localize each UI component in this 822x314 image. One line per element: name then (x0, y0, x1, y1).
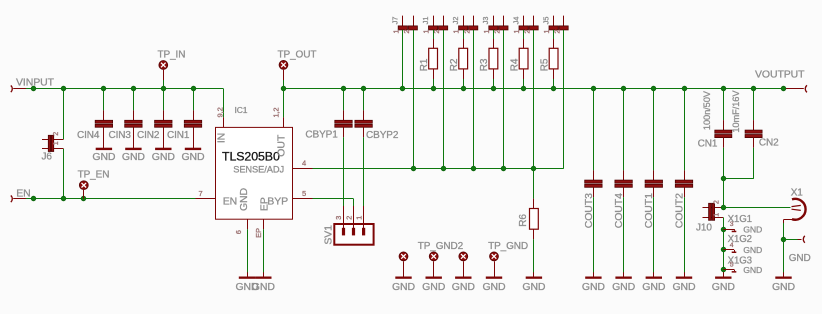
resistor R5 (539, 30, 558, 89)
junction R1 (431, 86, 436, 91)
svg-text:TP_GND: TP_GND (488, 241, 528, 252)
svg-text:GND: GND (482, 281, 506, 293)
svg-text:COUT2: COUT2 (673, 193, 685, 228)
jumper J1 (421, 16, 448, 34)
junction CIN4 (101, 86, 106, 91)
resistor R4 (509, 30, 528, 89)
capacitor CN1 100n/50V (698, 89, 732, 179)
junction CBYP1 (341, 86, 346, 91)
ground under R6 (522, 272, 546, 293)
pin EP bottom (254, 219, 264, 238)
svg-text:1: 1 (422, 30, 431, 34)
junction J6 column (61, 86, 66, 91)
ground under testpoint 1 (392, 272, 416, 293)
wire J3 pin2 to SENSE (503, 30, 505, 169)
testpoint TP ground 4 (490, 252, 499, 273)
junction R5 (551, 86, 556, 91)
ground under COUT4 (612, 272, 636, 293)
wire J4 pin2 to SENSE (533, 30, 535, 169)
svg-text:COUT3: COUT3 (583, 193, 595, 228)
svg-text:R3: R3 (479, 58, 490, 71)
svg-text:X1: X1 (791, 187, 804, 198)
junction CN1 bottom (721, 176, 726, 181)
wire CN bottom loop (723, 178, 753, 180)
junction CIN3 (131, 86, 136, 91)
svg-text:1: 1 (355, 216, 364, 220)
resistor R6 (518, 169, 538, 273)
svg-text:CIN1: CIN1 (167, 130, 190, 141)
pin 5 BYP (293, 189, 313, 199)
wire X1G ground column (723, 218, 725, 273)
svg-text:R5: R5 (539, 58, 550, 71)
svg-text:COUT1: COUT1 (643, 193, 655, 228)
svg-text:6: 6 (234, 230, 243, 234)
testpoint TP_OUT (278, 49, 317, 88)
svg-text:J4: J4 (511, 17, 520, 25)
svg-text:100n/50V: 100n/50V (702, 90, 712, 130)
svg-text:10mF/16V: 10mF/16V (731, 90, 741, 133)
wire J2 pin2 to SENSE (473, 30, 475, 169)
port VINPUT (11, 77, 55, 93)
testpoint TP ground 1 (399, 252, 408, 273)
svg-text:GND: GND (789, 253, 811, 264)
svg-text:EP: EP (254, 228, 263, 238)
jumper J10 (696, 200, 723, 233)
net BYP wire (313, 199, 354, 207)
ground under CIN1 (181, 148, 205, 163)
pin X1G2 (721, 234, 762, 255)
svg-text:J10: J10 (696, 222, 712, 233)
svg-text:2: 2 (553, 30, 562, 34)
svg-text:J7: J7 (391, 17, 400, 25)
net SENSE wire (313, 30, 564, 169)
svg-text:GND: GND (452, 281, 476, 293)
ground under X1 shield (772, 272, 796, 293)
junction CIN1 (191, 86, 196, 91)
svg-text:CBYP1: CBYP1 (305, 130, 338, 141)
jumper J2 (451, 16, 478, 34)
junction COUT2 (682, 86, 687, 91)
svg-text:EN: EN (223, 195, 237, 207)
svg-text:GND: GND (743, 245, 762, 255)
junction CBYP2 (361, 86, 366, 91)
pin X1G3 (721, 256, 762, 275)
ground under CIN3 (122, 148, 146, 163)
svg-text:GND: GND (743, 265, 762, 275)
pin X1G1 (721, 214, 762, 234)
svg-text:J6: J6 (42, 152, 53, 163)
capacitor CIN2 (137, 89, 172, 148)
svg-text:J3: J3 (481, 17, 490, 25)
ground under COUT2 (672, 272, 696, 293)
wire CN junction down (723, 179, 725, 208)
svg-text:OUT: OUT (276, 134, 288, 157)
svg-text:TLS205B0: TLS205B0 (222, 149, 280, 163)
net EN wire (26, 198, 196, 200)
junction CN2 (751, 86, 756, 91)
junction J3 pin2 (501, 166, 506, 171)
svg-text:GND: GND (522, 281, 546, 293)
ground under X1G column (712, 272, 736, 293)
wire J7 pin2 to SENSE (413, 30, 415, 169)
svg-text:TP_GND2: TP_GND2 (418, 241, 464, 252)
svg-text:1: 1 (542, 30, 551, 34)
port VOUTPUT (755, 68, 807, 92)
svg-text:GND: GND (712, 281, 736, 293)
svg-text:TP_OUT: TP_OUT (278, 49, 317, 60)
svg-text:1: 1 (53, 141, 60, 145)
wire J5 pin2 to SENSE (563, 30, 565, 169)
junction J7 (400, 86, 405, 91)
svg-text:R1: R1 (419, 58, 430, 71)
pin 7 EN (196, 189, 216, 198)
testpoint TP_IN (158, 49, 186, 88)
net X1 signal wire (723, 207, 790, 209)
ground under testpoint 3 (452, 272, 476, 293)
svg-text:GND: GND (422, 281, 446, 293)
svg-text:R2: R2 (449, 58, 460, 71)
junction VINPUT port (31, 86, 36, 91)
ground under testpoint 2 (422, 272, 446, 293)
svg-text:CIN4: CIN4 (77, 130, 100, 141)
capacitor CBYP2 (355, 89, 399, 206)
capacitor COUT1 (643, 89, 662, 273)
svg-text:BYP: BYP (267, 195, 288, 207)
capacitor COUT3 (583, 89, 602, 273)
op-amp U1 regulator IC1 TLS205B0 body (216, 105, 293, 219)
junction CIN2 (161, 86, 166, 91)
capacitor CBYP1 (305, 89, 352, 206)
junction R3 (491, 86, 496, 91)
connector SV1 (322, 206, 373, 245)
testpoint TP ground 2 (429, 252, 438, 273)
svg-text:2: 2 (344, 216, 353, 220)
jumper J7 (391, 16, 418, 34)
capacitor COUT2 (673, 89, 692, 273)
junction EN port (31, 196, 36, 201)
capacitor CIN3 (109, 89, 143, 148)
svg-text:SENSE/ADJ: SENSE/ADJ (233, 165, 284, 175)
svg-text:COUT4: COUT4 (613, 193, 625, 228)
svg-text:CIN3: CIN3 (109, 130, 132, 141)
ground under COUT1 (642, 272, 666, 293)
connector X1 (791, 187, 806, 219)
svg-text:GND: GND (152, 151, 176, 163)
svg-text:3: 3 (730, 221, 734, 228)
ground under IC EP pin (252, 272, 276, 293)
label TP_GND (488, 241, 528, 252)
svg-text:5: 5 (302, 189, 306, 198)
wire IC GND pin to ground (247, 229, 249, 272)
wire IC EP pin to ground (263, 229, 265, 272)
capacitor CIN1 (167, 89, 202, 148)
ground under COUT3 (582, 272, 606, 293)
wire J6 upper (63, 89, 65, 140)
svg-text:GND: GND (392, 281, 416, 293)
junction J2 pin2 (471, 166, 476, 171)
svg-text:1,2: 1,2 (272, 108, 281, 118)
junction J1 pin2 (441, 166, 446, 171)
resistor R1 (419, 30, 438, 89)
svg-text:2: 2 (523, 30, 532, 34)
capacitor CN2 10mF/16V (731, 89, 779, 179)
svg-text:GND: GND (252, 281, 276, 293)
svg-text:IN: IN (216, 133, 228, 143)
ground under CIN4 (92, 148, 116, 163)
svg-text:EN: EN (16, 188, 30, 200)
junction COUT3 (591, 86, 596, 91)
junction J10 pin2 / X1 net (721, 205, 726, 210)
net VOUT rail (284, 88, 784, 90)
svg-text:GND: GND (122, 151, 146, 163)
junction R2 (461, 86, 466, 91)
svg-text:R6: R6 (518, 214, 529, 227)
jumper J4 (511, 16, 538, 34)
wire X1 shield (784, 220, 793, 273)
svg-text:5: 5 (730, 262, 734, 269)
svg-text:J2: J2 (451, 17, 460, 25)
ground under IC GND pin (235, 272, 259, 293)
junction TP_OUT / OUT pin (281, 86, 286, 91)
capacitor COUT4 (613, 89, 632, 273)
label TP_GND2 (418, 241, 464, 252)
capacitor CIN4 (77, 89, 113, 148)
svg-text:CIN2: CIN2 (137, 130, 160, 141)
wire J7 pin1 to rail (402, 30, 404, 89)
svg-text:4: 4 (730, 242, 734, 249)
resistor R2 (449, 30, 468, 89)
testpoint TP ground 3 (459, 252, 468, 273)
pin 6 GND bottom (234, 219, 248, 234)
svg-text:R4: R4 (509, 58, 520, 71)
jumper J6 (42, 132, 64, 163)
junction J6 lower (61, 196, 66, 201)
pin IN (9,2) (215, 107, 224, 127)
svg-text:1: 1 (512, 30, 521, 34)
junction J7 pin2 (411, 166, 416, 171)
svg-text:GND: GND (238, 187, 250, 211)
svg-text:J1: J1 (421, 17, 430, 25)
wire IN pin drop (223, 89, 225, 118)
wire J6 lower (63, 149, 65, 199)
wire J1 pin2 to SENSE (443, 30, 445, 169)
junction R4 (521, 86, 526, 91)
junction COUT1 (651, 86, 656, 91)
junction TP_EN (81, 196, 86, 201)
junction X1 shield stub (781, 237, 786, 242)
svg-text:CN1: CN1 (698, 139, 718, 150)
svg-text:2: 2 (402, 30, 411, 34)
svg-text:CBYP2: CBYP2 (366, 130, 399, 141)
junction COUT4 (621, 86, 626, 91)
svg-text:GND: GND (181, 151, 205, 163)
pin 4 SENSE/ADJ (293, 159, 313, 169)
pin OUT (1,2) (272, 89, 284, 128)
ground under testpoint 4 (482, 272, 506, 293)
junction J4 pin2 / R6 (531, 166, 536, 171)
svg-text:4: 4 (302, 159, 306, 168)
svg-text:GND: GND (582, 281, 606, 293)
svg-text:GND: GND (672, 281, 696, 293)
svg-text:GND: GND (743, 224, 762, 234)
svg-text:GND: GND (92, 151, 116, 163)
svg-text:GND: GND (642, 281, 666, 293)
jumper J5 (541, 16, 568, 34)
svg-text:1: 1 (452, 30, 461, 34)
junction VOUTPUT port (781, 86, 786, 91)
svg-text:TP_EN: TP_EN (78, 169, 110, 180)
svg-text:1: 1 (482, 30, 491, 34)
svg-text:GND: GND (772, 281, 796, 293)
junction CN1 (721, 86, 726, 91)
svg-text:TP_IN: TP_IN (158, 49, 186, 60)
svg-text:CN2: CN2 (759, 138, 779, 149)
svg-text:7: 7 (199, 189, 203, 198)
jumper J3 (481, 16, 508, 34)
svg-text:1: 1 (713, 213, 720, 217)
port EN (11, 188, 31, 202)
svg-text:GND: GND (612, 281, 636, 293)
svg-text:2: 2 (713, 200, 720, 204)
net VINPUT rail (26, 88, 224, 90)
svg-text:2: 2 (53, 132, 60, 136)
pin X1 shield open stub (784, 236, 811, 264)
testpoint TP_EN (78, 169, 110, 198)
svg-text:1: 1 (391, 30, 400, 34)
ground under CIN2 (152, 148, 176, 163)
resistor R3 (479, 30, 498, 89)
svg-text:9,2: 9,2 (215, 107, 224, 117)
svg-text:J5: J5 (541, 17, 550, 25)
svg-text:SV1: SV1 (322, 225, 334, 245)
svg-text:VOUTPUT: VOUTPUT (755, 68, 805, 80)
svg-text:IC1: IC1 (235, 105, 248, 115)
svg-text:3: 3 (334, 216, 343, 220)
